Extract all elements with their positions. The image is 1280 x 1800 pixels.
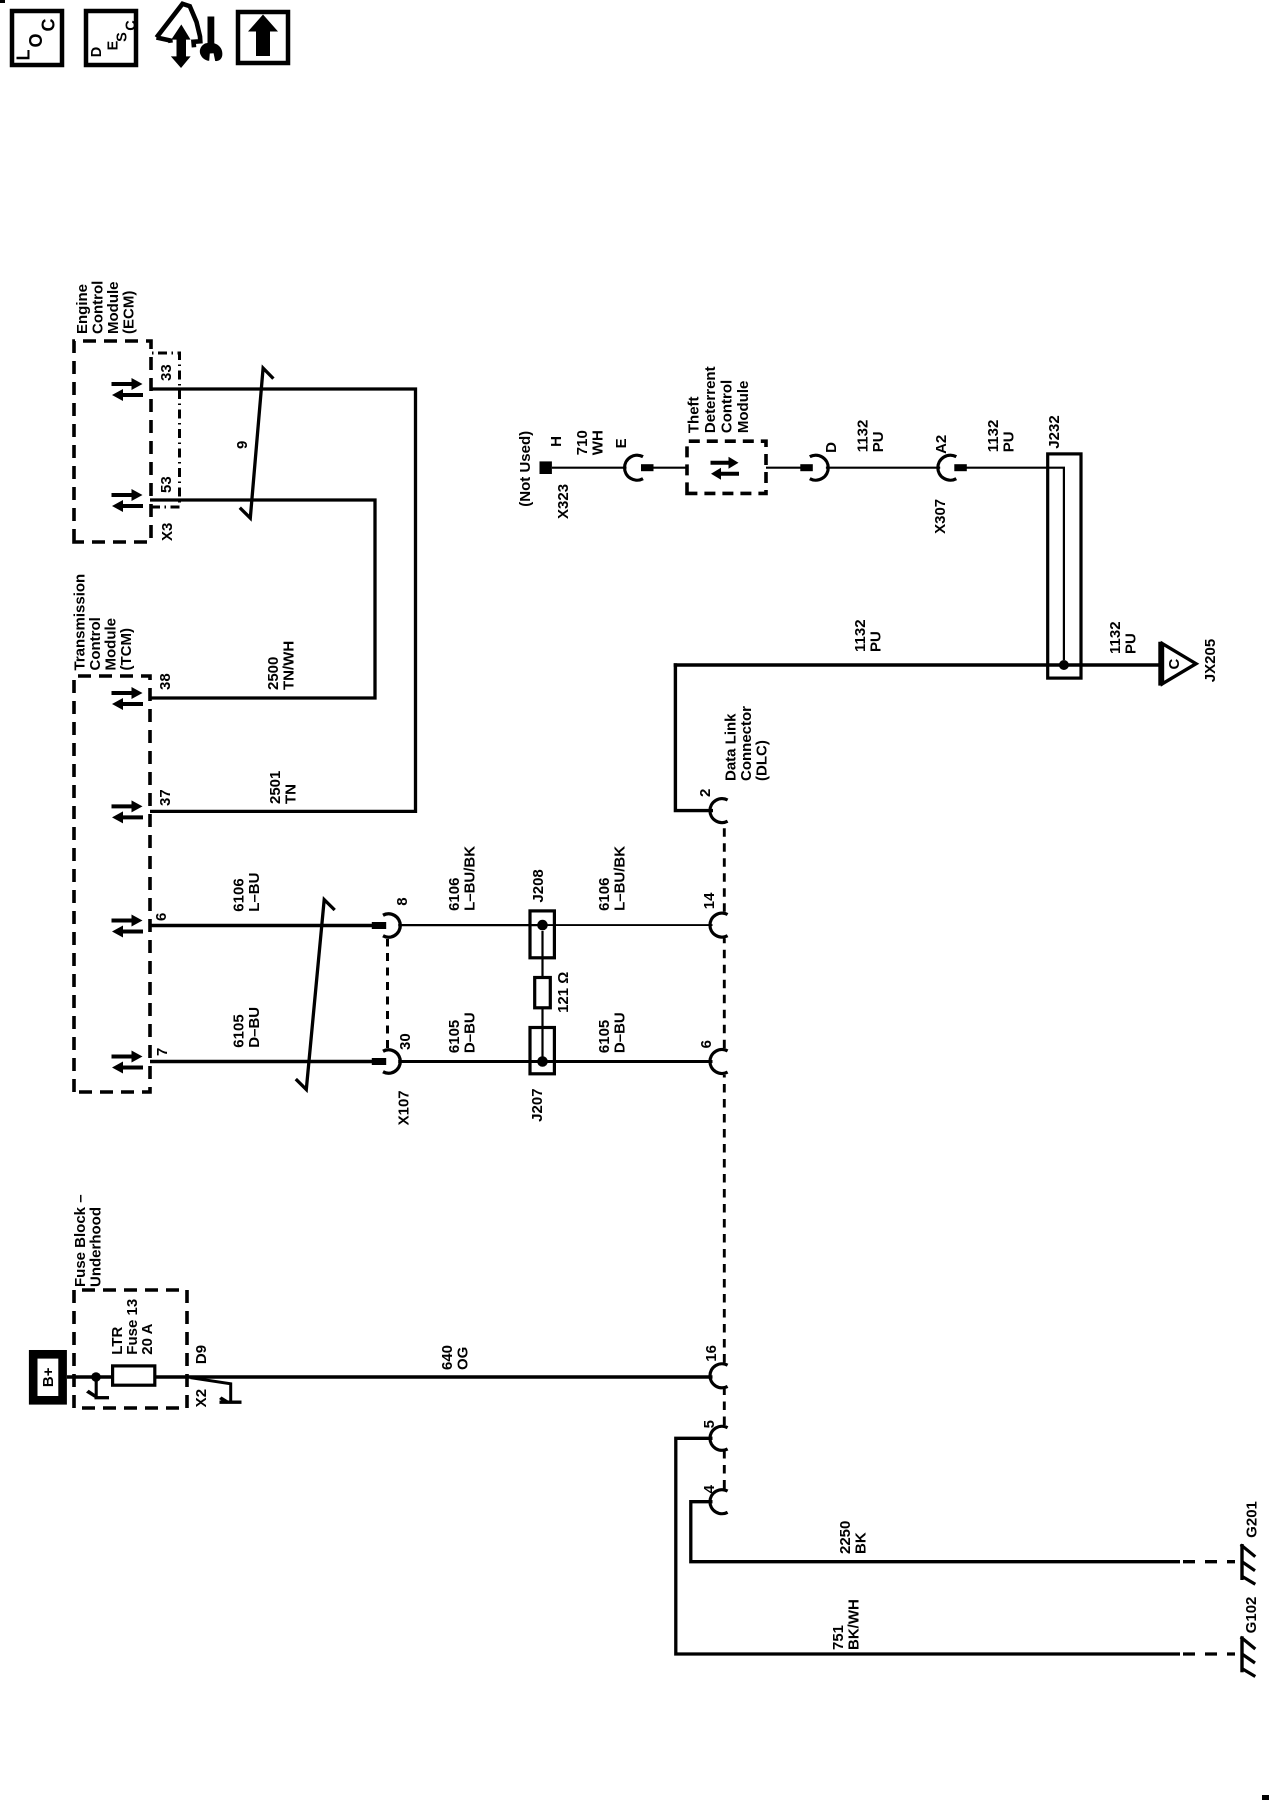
- icon wrench/arrows: [157, 4, 223, 67]
- wire 1132 PU (D to A2): [826, 467, 940, 469]
- wire 6105 label: [231, 1007, 264, 1048]
- svg-text:33: 33: [158, 364, 175, 381]
- svg-text:Control: Control: [90, 281, 107, 334]
- wire 6106 label: [231, 873, 264, 912]
- svg-text:C: C: [124, 20, 140, 31]
- svg-text:Engine: Engine: [74, 284, 91, 334]
- svg-text:30: 30: [397, 1033, 414, 1050]
- resistor link wire right: [541, 931, 543, 978]
- icon DESC box: [86, 11, 140, 65]
- svg-text:X307: X307: [932, 499, 949, 534]
- B+ terminal: [33, 1354, 62, 1400]
- svg-text:7: 7: [154, 1048, 171, 1056]
- svg-text:L–BU/BK: L–BU/BK: [462, 846, 479, 911]
- svg-text:6106: 6106: [596, 878, 613, 911]
- twisted pair mark 9: [240, 368, 274, 518]
- X107 pin 8 female arc: [383, 914, 400, 937]
- svg-text:2250: 2250: [837, 1521, 854, 1554]
- TCM pin38 bidirectional arrows: [112, 687, 144, 710]
- wire DLC2 up: [675, 663, 713, 810]
- svg-text:B+: B+: [40, 1367, 57, 1387]
- wire 6106 L-BU: [150, 924, 373, 927]
- splice J208 junction dot: [537, 920, 548, 931]
- TCM pin37 bidirectional arrows: [112, 800, 144, 823]
- svg-text:(DLC): (DLC): [754, 740, 771, 781]
- wire 2500 TN/WH: TCM 38 to ECM 53: [150, 500, 375, 698]
- splice pack J232 box: [1048, 454, 1081, 678]
- wire 1132 PU label (above J232): [852, 619, 885, 652]
- wire DLC5 branch: [676, 1438, 1180, 1654]
- ECM pin53 bidirectional arrows: [112, 489, 144, 512]
- svg-text:710: 710: [574, 430, 591, 455]
- svg-text:6106: 6106: [231, 878, 248, 911]
- wire 2501 TN: TCM 37 to ECM 33: [150, 389, 416, 811]
- svg-text:G102: G102: [1243, 1597, 1260, 1634]
- off-page triangle C / JX205: [1161, 642, 1197, 686]
- svg-text:D9: D9: [193, 1345, 210, 1364]
- svg-text:6105: 6105: [446, 1020, 463, 1053]
- DLC dashed outline segments: [723, 1452, 726, 1489]
- connector D female arc: [810, 455, 828, 480]
- svg-text:6106: 6106: [446, 878, 463, 911]
- svg-text:Underhood: Underhood: [88, 1207, 105, 1287]
- connector E male terminal: [641, 464, 654, 471]
- icon LOC box: [12, 11, 62, 65]
- wire 751 BK/WH label: [830, 1599, 863, 1650]
- svg-text:JX205: JX205: [1202, 639, 1219, 682]
- svg-text:E: E: [613, 438, 630, 448]
- svg-text:Deterrent: Deterrent: [702, 366, 719, 433]
- feed junction dot: [91, 1372, 101, 1382]
- wire 2250 dashed continuation: [1183, 1560, 1235, 1563]
- TDCM module label: [686, 366, 753, 433]
- ECM module label: [74, 281, 138, 334]
- wire 2500 label: [265, 641, 298, 690]
- wire 1132 PU label (below J232): [1107, 621, 1140, 654]
- svg-text:D: D: [89, 47, 105, 57]
- TCM pin7 bidirectional arrows: [112, 1051, 144, 1074]
- svg-text:(ECM): (ECM): [121, 291, 138, 334]
- svg-text:D: D: [823, 442, 840, 453]
- svg-text:BK: BK: [853, 1532, 870, 1554]
- svg-text:5: 5: [701, 1420, 718, 1428]
- main 1132 PU wire down to JX205: [674, 663, 1161, 666]
- wire 6105 right label: [596, 1012, 629, 1053]
- svg-text:Module: Module: [735, 381, 752, 434]
- svg-text:L: L: [14, 50, 34, 61]
- svg-text:(Not Used): (Not Used): [517, 431, 534, 507]
- wire 1132 PU label (A2-J232): [985, 420, 1018, 453]
- svg-text:6: 6: [153, 913, 170, 921]
- wire 1132 PU label (D-A2): [854, 420, 887, 453]
- svg-text:9: 9: [234, 441, 251, 449]
- svg-text:2: 2: [697, 789, 714, 797]
- svg-text:Module: Module: [103, 618, 120, 671]
- TCM dashed box: [74, 676, 150, 1092]
- svg-text:Theft: Theft: [686, 396, 703, 433]
- fuse block label: [72, 1194, 105, 1287]
- other-circuits hook below fuse block: [191, 1378, 242, 1404]
- ground G102: [1241, 1636, 1256, 1676]
- svg-text:Control: Control: [87, 617, 104, 670]
- wire 6106 right label: [596, 846, 629, 911]
- tiny page mark bottom right: [1262, 1795, 1269, 1800]
- svg-text:37: 37: [157, 789, 174, 806]
- svg-text:J207: J207: [529, 1088, 546, 1121]
- svg-text:X107: X107: [396, 1090, 413, 1125]
- svg-text:1132: 1132: [985, 420, 1002, 453]
- svg-text:PU: PU: [870, 431, 887, 452]
- splice J207 box: [530, 1028, 554, 1074]
- TCM module label: [72, 574, 136, 671]
- J232 internal link: [1048, 468, 1064, 660]
- wire 2250 BK label: [837, 1521, 870, 1554]
- svg-text:Data Link: Data Link: [723, 713, 740, 781]
- DLC pin 14 arc: [710, 913, 728, 937]
- wire 6105 D-BU: [150, 1060, 373, 1063]
- resistor 121 ohm: [535, 978, 551, 1008]
- svg-text:6105: 6105: [596, 1020, 613, 1053]
- svg-text:TN: TN: [283, 784, 300, 804]
- other-circuits hook at feed: [86, 1379, 109, 1399]
- svg-text:OG: OG: [455, 1347, 472, 1370]
- wire 640 OG label: [439, 1345, 472, 1370]
- splice J207 junction dot: [537, 1056, 548, 1067]
- wire 6105 mid label: [446, 1012, 479, 1053]
- svg-text:X2: X2: [193, 1389, 210, 1407]
- svg-text:PU: PU: [1123, 633, 1140, 654]
- svg-text:D–BU: D–BU: [462, 1012, 479, 1053]
- TCM pin6 bidirectional arrows: [112, 915, 144, 938]
- svg-text:A2: A2: [933, 435, 950, 454]
- wire 710 WH: [552, 467, 627, 469]
- svg-text:D–BU: D–BU: [612, 1012, 629, 1053]
- wire 1132 PU (A2 to J232): [966, 467, 1049, 469]
- svg-text:G201: G201: [1244, 1501, 1261, 1538]
- svg-text:6105: 6105: [231, 1014, 248, 1047]
- svg-text:1132: 1132: [1107, 621, 1124, 654]
- svg-text:H: H: [548, 436, 565, 447]
- splice J208 box: [530, 911, 554, 958]
- svg-text:L–BU/BK: L–BU/BK: [612, 846, 629, 911]
- svg-text:2500: 2500: [265, 657, 282, 690]
- svg-text:1132: 1132: [852, 619, 869, 652]
- ECM pin33 bidirectional arrows: [112, 378, 144, 401]
- DLC pin 2 arc: [710, 799, 728, 823]
- svg-text:6: 6: [698, 1040, 715, 1048]
- connector D male terminal: [800, 464, 813, 471]
- svg-text:WH: WH: [590, 430, 607, 455]
- svg-text:14: 14: [701, 892, 718, 909]
- twisted pair mark (6105/6106): [296, 900, 335, 1090]
- J232 junction dot: [1059, 660, 1069, 670]
- X107 pin 8 male terminal: [372, 922, 386, 929]
- svg-text:53: 53: [158, 476, 175, 493]
- DLC pin 16 arc: [710, 1364, 728, 1388]
- X107 pin 30 male terminal: [372, 1058, 386, 1065]
- svg-text:C: C: [39, 19, 59, 32]
- svg-text:Transmission: Transmission: [72, 574, 89, 671]
- svg-text:8: 8: [394, 897, 411, 905]
- svg-text:X323: X323: [555, 484, 572, 519]
- ECM connector X3 dash-dot box: [151, 353, 180, 507]
- DLC pin 4 arc: [710, 1490, 728, 1514]
- resistor link wire left: [541, 1008, 543, 1062]
- X107 pin 30 female arc: [383, 1050, 400, 1073]
- svg-text:38: 38: [157, 673, 174, 690]
- svg-text:E: E: [106, 40, 122, 50]
- wire TDCM to D: [766, 467, 801, 469]
- wire 6106 L-BU/BK (X107 to J208): [398, 924, 542, 926]
- svg-text:640: 640: [439, 1345, 456, 1370]
- wire 751 dashed continuation: [1183, 1652, 1235, 1655]
- svg-text:O: O: [26, 33, 46, 47]
- svg-text:Control: Control: [719, 380, 736, 433]
- ECM dashed box: [74, 341, 151, 542]
- connector A2 male terminal: [954, 464, 967, 471]
- svg-text:20 A: 20 A: [139, 1323, 156, 1354]
- svg-text:(TCM): (TCM): [118, 628, 135, 670]
- wire DLC4 branch: [691, 1502, 1180, 1562]
- svg-text:121 Ω: 121 Ω: [555, 972, 572, 1013]
- svg-text:J232: J232: [1046, 415, 1063, 448]
- fuse LTR Fuse 13 20 A: [109, 1299, 156, 1385]
- wire 710 WH label: [574, 430, 607, 455]
- svg-text:4: 4: [701, 1484, 718, 1493]
- X323 terminal H: [540, 461, 552, 474]
- DLC pin 6 arc: [710, 1050, 728, 1074]
- TDCM bidirectional arrows: [711, 457, 740, 480]
- ground G201: [1241, 1544, 1256, 1584]
- svg-text:Module: Module: [105, 282, 122, 335]
- svg-text:BK/WH: BK/WH: [846, 1599, 863, 1650]
- svg-text:X3: X3: [159, 523, 176, 541]
- wire 6106 L-BU/BK (J208 to DLC 14): [543, 924, 713, 926]
- tiny page mark top left: [0, 0, 5, 3]
- svg-text:PU: PU: [868, 631, 885, 652]
- svg-text:J208: J208: [530, 869, 547, 902]
- TDCM dashed box: [687, 441, 766, 493]
- connector A2 female arc: [938, 455, 956, 480]
- svg-text:16: 16: [703, 1345, 720, 1362]
- DLC label: [723, 706, 771, 781]
- svg-text:751: 751: [830, 1625, 847, 1650]
- fuse block dashed box: [74, 1290, 187, 1408]
- wire 2501 label: [267, 771, 300, 804]
- X107 connector dashed link: [386, 939, 389, 1048]
- svg-text:2501: 2501: [267, 771, 284, 804]
- wire 6105 D-BU (X107 to DLC 6): [398, 1060, 712, 1063]
- wire E to TDCM: [653, 467, 687, 469]
- svg-text:C: C: [1166, 659, 1183, 670]
- connector E female arc: [625, 455, 643, 480]
- icon up-arrow box: [238, 12, 288, 63]
- wire 6106 mid label: [446, 846, 479, 911]
- svg-text:1132: 1132: [854, 420, 871, 453]
- svg-text:TN/WH: TN/WH: [281, 641, 298, 690]
- wire B+ to fuse: [67, 1375, 113, 1378]
- wire fuse to DLC 16 (640 OG): [155, 1375, 713, 1378]
- svg-text:D–BU: D–BU: [246, 1007, 263, 1048]
- svg-text:PU: PU: [1001, 431, 1018, 452]
- svg-text:L–BU: L–BU: [246, 873, 263, 912]
- svg-text:S: S: [115, 32, 131, 42]
- svg-text:Fuse Block –: Fuse Block –: [72, 1194, 89, 1287]
- svg-text:Connector: Connector: [738, 706, 755, 781]
- DLC pin 5 arc: [710, 1426, 728, 1450]
